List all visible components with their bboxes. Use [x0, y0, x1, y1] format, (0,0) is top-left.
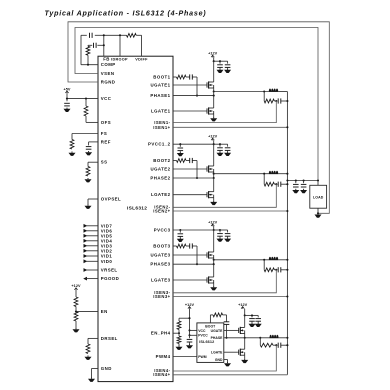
node COMP-R junction	[87, 64, 89, 66]
wire boot3 mid	[186, 245, 197, 247]
pin COMP label	[101, 62, 116, 67]
svg-text:ISEN1+: ISEN1+	[153, 125, 170, 130]
wire EN_PH4	[173, 332, 179, 334]
wire sense branch phase2	[263, 174, 265, 185]
node phase3 pin junction	[213, 263, 215, 265]
node boot4-phase junction	[225, 337, 227, 339]
node sense rail junction phase1	[286, 100, 288, 102]
wire ISEN3+ loop	[173, 296, 287, 298]
op-amp U1 ISL6312 main controller box	[98, 56, 173, 381]
ground bulk cap2 phase1	[224, 69, 231, 73]
capacitor C bulk1 phase3	[217, 234, 223, 238]
resistor R sense phase2	[264, 182, 274, 186]
wire UGATE2	[173, 168, 206, 170]
wire phase3 output line	[214, 259, 288, 261]
wire source Q3L to ground	[213, 283, 215, 286]
capacitor C bulk2 phase3	[225, 234, 231, 238]
inductor L4	[270, 335, 279, 338]
wire BOOT1	[173, 76, 177, 78]
wire drain Q1H to +12V	[213, 61, 215, 82]
inductor L2	[269, 171, 278, 174]
input arrow pin VID4	[84, 238, 113, 243]
wire sense cap to rail phase1	[281, 100, 288, 102]
transistor Q4H high-side MOSFET	[238, 327, 245, 334]
node phase4 node	[244, 337, 246, 339]
wire source Q2H to phase	[213, 172, 215, 174]
pin ISEN3- label	[154, 290, 170, 295]
node rail-load tee	[286, 179, 288, 181]
wire PHASE2	[173, 174, 214, 178]
svg-text:LOAD: LOAD	[313, 195, 324, 199]
wire sense cap to rail phase4	[281, 344, 288, 346]
capacitor C boot1	[190, 74, 193, 79]
pin IDROOP label	[111, 58, 128, 62]
resistor R EN bottom	[74, 312, 78, 328]
ground load	[315, 213, 322, 217]
pin PWM label U2	[198, 355, 207, 359]
node +12V tee phase2	[213, 143, 215, 145]
ground out cap2	[300, 189, 307, 193]
wire VDIFF vertical	[141, 35, 143, 56]
ground phase2 low-side	[210, 201, 217, 205]
node phase2 output junction	[213, 173, 215, 175]
wire cap1 stub phase1	[214, 60, 221, 63]
wire sense branch phase3	[263, 260, 265, 270]
wire LGATE2	[173, 194, 206, 196]
wire boot2 down	[196, 161, 198, 179]
wire comp mid segment	[88, 45, 104, 64]
wire cap2 stub phase3	[220, 230, 228, 232]
pin ISEN1+ label	[153, 125, 170, 130]
node ISEN2+ rail junction	[286, 210, 288, 212]
pin REF label	[101, 139, 111, 144]
svg-text:UGATE2: UGATE2	[151, 167, 171, 172]
pin SS label	[101, 160, 108, 165]
ground bulk cap1 phase1	[217, 69, 224, 73]
input arrow pin VID0	[84, 259, 113, 264]
wire drain Q1L	[213, 96, 215, 108]
transistor Q1L low-side MOSFET	[206, 107, 214, 114]
pin PVCC1_2 label	[148, 142, 171, 147]
node sense rail junction phase2	[286, 183, 288, 185]
wire boot4 corner	[223, 315, 227, 322]
node boot2-phase junction	[196, 177, 198, 179]
wire ISEN3- loop	[173, 270, 276, 293]
pin VCC label U2	[198, 329, 206, 333]
node sense rail junction phase3	[286, 269, 288, 271]
svg-text:REF: REF	[101, 139, 111, 144]
node FB mid junction	[103, 44, 105, 46]
transistor Q2H high-side MOSFET	[206, 165, 214, 172]
wire comp top segment	[81, 34, 142, 36]
node phase2 rail junction	[286, 173, 288, 175]
pin UGATE3 label	[151, 253, 171, 258]
pin LGATE1 label	[151, 109, 171, 114]
wire source Q4H	[244, 333, 246, 337]
node IDROOP junction	[119, 34, 121, 36]
pin UGATE label U2	[211, 329, 224, 333]
wire boot1 down	[196, 77, 198, 96]
wire VCC U2	[190, 329, 197, 331]
node phase4 rail junction	[286, 337, 288, 339]
node VSEN-load junction	[317, 179, 319, 185]
svg-text:PHASE1: PHASE1	[150, 93, 170, 98]
capacitor C PVCC phase3	[178, 234, 184, 238]
node phase3 rail junction	[286, 259, 288, 261]
resistor R boot4	[213, 313, 223, 317]
wire BOOT3	[173, 245, 177, 247]
node sense branch phase3	[263, 259, 265, 261]
wire source Q2L to ground	[213, 198, 215, 201]
wire ISEN2+ loop	[173, 210, 287, 212]
wire UGATE1	[173, 84, 206, 86]
wire VOUT rail	[286, 92, 288, 375]
pin LGATE2 label	[151, 192, 171, 197]
resistor R EN_PH4 top	[177, 321, 181, 330]
pin BOOT2 label	[153, 158, 170, 163]
node load cap1 junction	[295, 179, 297, 183]
ground PVCC cap phase3	[177, 238, 184, 242]
ground VCC cap U2	[186, 344, 193, 348]
capacitor C bulk2 phase4	[255, 319, 261, 323]
ground SS resistor	[85, 178, 92, 182]
wire VOUT to load	[287, 180, 318, 182]
capacitor C boot2	[190, 158, 193, 163]
svg-text:VCC: VCC	[198, 329, 206, 333]
wire +12V stem phase1	[213, 57, 215, 61]
node PVCC U2 junction	[188, 334, 190, 336]
wire phase4 caps stub	[245, 314, 259, 317]
node VCC supply junction	[66, 98, 68, 100]
load box	[310, 185, 327, 208]
power +12V phase2	[208, 135, 218, 141]
svg-text:UGATE: UGATE	[211, 329, 224, 333]
svg-text:VDIFF: VDIFF	[135, 58, 148, 62]
svg-text:OVPSEL: OVPSEL	[101, 197, 121, 202]
pin VCC label	[101, 96, 112, 101]
power +12V phase1	[208, 52, 218, 58]
pin BOOT1 label	[153, 75, 170, 80]
svg-text:LGATE2: LGATE2	[151, 192, 171, 197]
resistor R SS	[86, 167, 90, 177]
ground main IC	[88, 378, 95, 382]
pin EN_PH4 label	[151, 331, 171, 336]
svg-text:PGOOD: PGOOD	[101, 276, 119, 281]
capacitor C boot4	[224, 322, 230, 325]
wire phase2 output line	[214, 173, 288, 175]
capacitor C VCC decouple	[64, 103, 70, 106]
power +12V driver supply	[185, 303, 195, 309]
svg-text:OFS: OFS	[101, 120, 111, 125]
wire OFS	[86, 121, 98, 123]
wire OVPSEL	[88, 199, 98, 205]
pin PVCC3 label	[154, 228, 171, 233]
svg-text:VSEN: VSEN	[101, 71, 115, 76]
capacitor C bulk1 phase1	[217, 65, 223, 69]
transistor Q3H high-side MOSFET	[206, 251, 214, 258]
wire VCC	[67, 93, 98, 101]
wire PVCC3 pin	[173, 229, 214, 231]
wire EN divider tee	[179, 318, 190, 321]
title text	[45, 9, 207, 17]
svg-text:EN_PH4: EN_PH4	[151, 331, 171, 336]
wire LGATE3	[173, 279, 206, 281]
pin ISEN2- label	[154, 205, 170, 210]
svg-text:PWM: PWM	[198, 355, 207, 359]
pin VDIFF label	[135, 58, 148, 62]
inductor L3	[269, 257, 278, 260]
pin FB label	[103, 57, 110, 62]
pin VSEN label	[101, 71, 115, 76]
wire ISEN1+ loop	[173, 126, 287, 128]
resistor R boot1	[177, 75, 187, 79]
power +5V supply	[63, 87, 70, 93]
node sense rail junction phase4	[286, 344, 288, 346]
wire PVCC1_2 pin	[173, 143, 214, 145]
input arrow pin VID2	[84, 248, 113, 253]
wire drain Q3L	[213, 264, 215, 277]
pin ISEN1- label	[154, 120, 170, 125]
ground EN divider	[73, 328, 80, 332]
ground OVPSEL	[85, 205, 92, 209]
wire PHASE4 line	[224, 337, 260, 339]
capacitor C sense phase4	[278, 343, 281, 348]
node sense mid phase2	[274, 183, 277, 185]
ground phase1 low-side	[210, 117, 217, 121]
wire sense branch phase4 down	[259, 338, 261, 345]
wire +12V stem phase3	[213, 226, 215, 230]
svg-text:GND: GND	[215, 358, 223, 362]
capacitor C bulk1 phase2	[217, 148, 223, 152]
wire FB vertical	[103, 35, 105, 56]
node ISEN1+ rail junction	[286, 126, 288, 128]
wire GND pin	[92, 369, 99, 378]
node sense mid phase3	[274, 269, 277, 271]
node +12V tee phase4	[244, 314, 246, 316]
resistor R sense phase1	[264, 99, 274, 103]
pin PHASE1 label	[150, 93, 170, 98]
pin EN label	[101, 309, 108, 314]
svg-text:LGATE: LGATE	[211, 351, 223, 355]
svg-text:FB: FB	[103, 57, 110, 62]
ground DRSEL resistor	[85, 356, 92, 360]
wire RGND remote sense	[68, 22, 329, 214]
node PVCC cap junction phase3	[179, 229, 181, 233]
svg-text:PVCC3: PVCC3	[154, 228, 171, 233]
wire ISEN4- loop	[173, 345, 276, 371]
wire sense cap to rail phase3	[281, 269, 288, 271]
svg-text:Typical Application - ISL6312: Typical Application - ISL6312 (4-Phase)	[45, 9, 207, 17]
wire LGATE1	[173, 110, 206, 112]
wire BOOT U2 up	[210, 315, 213, 323]
svg-text:PHASE3: PHASE3	[150, 262, 170, 267]
ground bulk cap1 phase3	[217, 237, 224, 241]
node boot3-phase junction	[196, 263, 198, 265]
capacitor C bulk2 phase2	[225, 148, 231, 152]
wire PHASE3	[173, 260, 214, 264]
ground phase4 low-side	[241, 359, 248, 363]
node boot1-phase junction	[196, 95, 198, 97]
capacitor C comp2 (series)	[94, 43, 97, 48]
wire boot1 mid	[186, 76, 197, 78]
pin LGATE label U2	[211, 351, 223, 355]
inductor L1	[269, 88, 278, 91]
ground phase3 low-side	[210, 286, 217, 290]
svg-text:VID1: VID1	[101, 254, 113, 259]
wire source Q1H to phase	[213, 88, 215, 92]
node load ground junction	[317, 212, 319, 214]
transistor Q2L low-side MOSFET	[206, 191, 214, 198]
input arrow pin VID1	[84, 254, 113, 259]
svg-text:BOOT2: BOOT2	[153, 158, 170, 163]
wire ISEN1- loop	[173, 101, 276, 123]
svg-text:DRSEL: DRSEL	[101, 336, 118, 341]
wire PHASE1	[173, 92, 214, 96]
capacitor C comp (COMP-FB top)	[90, 33, 93, 38]
node +12V tee phase3	[213, 229, 215, 231]
power +12V phase4	[238, 303, 248, 309]
node +12V tee driver	[188, 317, 190, 319]
svg-text:LGATE1: LGATE1	[151, 109, 171, 114]
node EN_PH4 junction	[178, 330, 180, 337]
input arrow pin VRSEL	[84, 268, 118, 273]
svg-text:ISL6312: ISL6312	[127, 206, 147, 212]
node phase1 pin junction	[213, 95, 215, 97]
wire +12V phase4 stem	[244, 309, 246, 316]
wire ISEN2- loop	[173, 184, 276, 207]
wire source Q4L	[244, 355, 246, 359]
resistor R DRSEL	[86, 344, 90, 354]
wire +12V stem phase2	[213, 140, 215, 144]
node ISEN3+ rail junction	[286, 295, 288, 297]
resistor R FS	[70, 140, 74, 150]
svg-text:BOOT3: BOOT3	[153, 244, 170, 249]
svg-text:VID0: VID0	[101, 259, 113, 264]
resistor R boot2	[177, 159, 187, 163]
wire FS	[72, 134, 98, 140]
wire boot3 down	[196, 246, 198, 264]
op-amp U2 ISL6612 driver box	[197, 323, 224, 363]
wire UGATE3	[173, 254, 206, 256]
wire load bottom	[317, 208, 319, 213]
svg-text:BOOT1: BOOT1	[153, 75, 170, 80]
svg-text:GND: GND	[101, 366, 112, 371]
wire EN	[76, 311, 98, 313]
ground bulk cap2 phase3	[224, 237, 231, 241]
svg-text:FS: FS	[101, 131, 107, 136]
transistor Q1H high-side MOSFET	[206, 81, 214, 88]
capacitor C bulk1 phase4	[249, 319, 255, 323]
node +12V tee phase1	[213, 60, 215, 62]
capacitor C REF	[86, 147, 92, 150]
pin PHASE2 label	[150, 176, 170, 181]
svg-text:ISL6612: ISL6612	[199, 340, 214, 344]
pin ISEN2+ label	[153, 209, 170, 214]
wire boot4 down	[226, 324, 228, 337]
capacitor C VCC U2	[187, 339, 193, 344]
svg-text:UGATE3: UGATE3	[151, 253, 171, 258]
wire source Q3H to phase	[213, 258, 215, 260]
ground U2	[224, 362, 231, 366]
wire VSEN remote sense	[75, 28, 318, 181]
ground bulk cap2 phase2	[224, 152, 231, 156]
wire cap2 stub phase2	[220, 144, 228, 146]
wire phase1 output line	[214, 91, 288, 93]
resistor R comp (series)	[86, 46, 90, 55]
svg-text:ISEN4+: ISEN4+	[153, 372, 170, 377]
capacitor C sense phase2	[278, 182, 281, 187]
wire DRSEL	[88, 338, 98, 344]
transistor Q4L low-side MOSFET	[238, 349, 245, 356]
wire GND U2	[224, 360, 228, 363]
capacitor C bulk2 phase1	[225, 65, 231, 69]
wire UGATE4	[224, 329, 238, 331]
pin PHASE3 label	[150, 262, 170, 267]
resistor R EN_PH4 bottom	[177, 336, 181, 346]
capacitor C out1	[293, 184, 299, 187]
pin LGATE3 label	[151, 278, 171, 283]
pin GND label	[101, 366, 112, 371]
svg-text:PVCC1_2: PVCC1_2	[148, 142, 171, 147]
wire cap1 stub phase3	[214, 229, 221, 232]
svg-text:RGND: RGND	[101, 80, 116, 85]
wire LGATE4	[224, 351, 238, 353]
wire drain Q2L	[213, 178, 215, 192]
resistor R boot3	[177, 244, 187, 248]
node EN junction	[75, 311, 77, 313]
pin OFS label	[101, 120, 111, 125]
ground bulk cap2 phase4	[255, 323, 262, 327]
pin BOOT3 label	[153, 244, 170, 249]
pin PVCC label U2	[198, 334, 208, 338]
node FB top junction	[103, 34, 105, 36]
node VCC resistor junction	[85, 98, 87, 100]
resistor R sense phase3	[264, 268, 274, 272]
wire IDROOP vertical	[119, 35, 121, 56]
wire drain Q3H to +12V	[213, 230, 215, 252]
wire PWM4	[173, 356, 197, 358]
ground out cap1	[292, 189, 299, 193]
pin UGATE1 label	[151, 83, 171, 88]
svg-text:COMP: COMP	[101, 62, 116, 67]
node phase1 output junction	[213, 90, 215, 92]
svg-text:PHASE2: PHASE2	[150, 176, 170, 181]
svg-text:IDROOP: IDROOP	[111, 58, 128, 62]
wire source Q1L to ground	[213, 114, 215, 117]
svg-text:EN: EN	[101, 309, 108, 314]
pin RGND label	[101, 80, 116, 85]
pin PWM4 label	[156, 354, 171, 359]
capacitor C PVCC phase2	[178, 148, 184, 152]
pin FS label	[101, 131, 107, 136]
svg-text:PVCC: PVCC	[198, 334, 208, 338]
resistor R FB-VDIFF	[127, 33, 137, 37]
node load cap2 junction	[303, 179, 305, 183]
ground bulk cap1 phase4	[249, 323, 256, 327]
node phase3 output junction	[213, 259, 215, 261]
pin BOOT label U2	[205, 325, 216, 329]
wire +12V driver stem	[189, 309, 191, 336]
wire ISEN4+ loop	[173, 374, 287, 376]
power +12V EN supply	[71, 284, 81, 290]
wire sense branch phase1	[263, 92, 265, 102]
pin ISEN3+ label	[153, 294, 170, 299]
capacitor C sense phase3	[278, 267, 281, 272]
output arrow pin PGOOD	[83, 276, 119, 281]
ground EN_PH4 divider	[176, 346, 183, 350]
pin GND label U2	[215, 358, 223, 362]
input arrow pin VID7	[84, 223, 113, 228]
